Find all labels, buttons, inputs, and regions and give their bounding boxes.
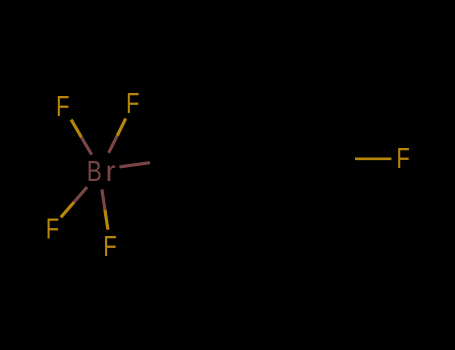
bond Br-C1 (ring), carbon half (black) [150,159,181,163]
bond Br-F2 (top-right), Br half [109,136,118,153]
svg-text:B: B [87,156,102,188]
bond Br-F1 (top-left), Br half [81,137,91,155]
bond Br-C1 (ring), Br half [119,163,150,167]
bond Br-F2 (top-right), F half [117,119,126,136]
svg-text:r: r [106,156,117,188]
svg-text:F: F [56,91,69,123]
svg-text:F: F [126,88,139,120]
svg-text:F: F [46,213,59,245]
benzene ring (carbon skeleton, black on black background) [181,99,319,219]
bond C4-F5, F half [355,157,391,160]
bond Br-F4 (bottom), Br half [102,189,105,209]
bond Br-F3 (bottom-left), F half [61,202,74,217]
bond C4-F5 (ring to para F), carbon half (black) [319,157,355,160]
bond Br-F3 (bottom-left), Br half [74,187,87,202]
bond Br-F4 (bottom), F half [105,210,108,230]
svg-text:F: F [103,231,116,263]
bond Br-F1 (top-left), F half [71,120,81,138]
svg-text:F: F [396,143,409,175]
